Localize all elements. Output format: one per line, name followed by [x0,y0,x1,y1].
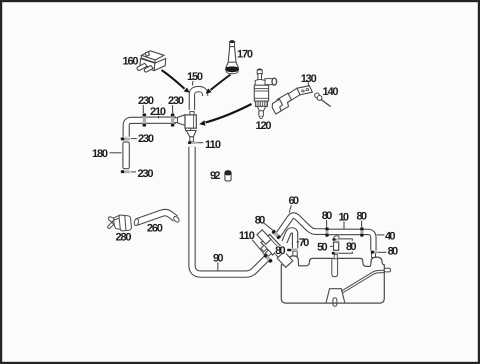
svg-text:80: 80 [255,215,266,227]
tube from sleeve into canister [334,255,337,259]
svg-text:140: 140 [323,86,339,98]
canister internal standpipe slot [332,259,338,277]
canister internal diagonal pipe [341,270,384,291]
clamp 80 at hose 70 lower end [287,249,297,252]
svg-text:180: 180 [92,148,108,160]
arrow from connector 160 to check valve [162,70,185,89]
clamp 230 on pipe 210 right [171,113,175,126]
label 80 (sleeve 50 clamps bracket) [339,239,352,253]
canister internal trapezoid cup [326,289,345,303]
svg-text:160: 160 [123,55,139,67]
svg-text:60: 60 [288,195,299,207]
svg-text:40: 40 [385,231,396,243]
hose 70 (small n-bend) [285,230,296,248]
svg-text:80: 80 [275,245,286,257]
svg-text:230: 230 [138,168,154,180]
tube below clamp into canister right bump [372,253,376,257]
canister bottom nub [333,298,337,306]
clamp 230 on pipe 210 left [143,113,147,126]
vent valve assembly 110 (diagonal on canister) [252,228,293,271]
clip 280 [108,215,132,231]
clamp 230 above pipe 180 [121,137,130,140]
check valve (center) body [173,112,196,142]
arrow from nozzle 170 to hose 150 right end [211,75,231,91]
svg-text:80: 80 [346,241,357,253]
clamp 230 below pipe 180 [121,170,130,173]
hose 150 (n-bend on check valve) [192,89,205,110]
connector sleeve 50 [334,242,339,250]
clamp 80 at pipe 10 left [325,227,329,237]
svg-text:230: 230 [168,95,184,107]
svg-text:50: 50 [317,241,328,253]
purge valve 120 [254,69,276,119]
screw 140 [315,93,331,107]
svg-text:260: 260 [147,222,163,234]
pipe 10 [330,229,360,236]
stub port under pipe 10 [332,235,339,241]
hose 260 [134,213,180,226]
bracket 130 [272,86,312,114]
pipe 180 [123,142,129,169]
hose 40 (elbow to canister) [363,232,373,251]
clamp 80 at pipe 10 right [360,227,364,237]
svg-text:150: 150 [187,71,203,83]
hose 90 (long hose from check valve to vent valve) [192,147,267,274]
canister right side tab [384,268,390,272]
svg-text:80: 80 [388,246,399,258]
svg-text:120: 120 [256,120,272,132]
svg-text:280: 280 [116,232,132,244]
svg-text:230: 230 [138,133,154,145]
elbow pipe top-left [126,120,141,136]
tube below hose70 clamp into canister left bump [293,251,297,256]
clamp 110 at hose 90 upper end [263,253,273,263]
clamp 80 at hose 60 lower end [271,229,281,239]
clamp 110 under check valve [188,141,197,144]
hose 60 [277,216,326,237]
arrow from valve 120 to check valve [206,104,252,123]
connector 160 [137,51,166,72]
clamp 80 at hose 40 bottom [371,251,378,254]
svg-text:170: 170 [237,48,253,60]
pipe 210 [142,116,177,123]
clamp 80 below sleeve 50 [332,252,339,255]
sleeve part 92 icon [225,171,231,181]
canister (fuel tank outline) [281,256,390,306]
label 80 (hose 70 clamp) [275,246,286,254]
svg-text:110: 110 [205,139,221,151]
nozzle cap 170 [226,40,239,74]
svg-text:70: 70 [299,237,310,249]
svg-text:92: 92 [210,170,221,182]
